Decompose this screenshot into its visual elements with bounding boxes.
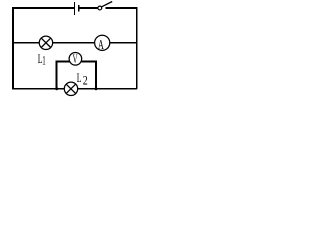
wire middle-left: [12, 42, 39, 44]
lamp L1: [39, 36, 52, 49]
svg-text:A: A: [98, 38, 105, 53]
wire bottom-left: [12, 88, 64, 90]
battery B1: [75, 2, 79, 15]
wire top-left to left edge down: [13, 8, 75, 89]
wire bottom-right: [78, 88, 137, 90]
wire switch to top-right corner down right edge: [106, 8, 137, 89]
switch S1: [98, 6, 102, 10]
node junction left of L2 parallel branch: [55, 87, 58, 90]
svg-text:V: V: [73, 53, 78, 67]
wire L1 to ammeter: [53, 42, 95, 44]
ammeter A: [95, 35, 110, 50]
wire voltmeter loop right branch: [81, 62, 96, 89]
svg-text:2: 2: [83, 74, 88, 87]
node junction right of L2 parallel branch: [95, 87, 98, 90]
wire voltmeter loop left branch: [57, 62, 70, 89]
lamp L2: [64, 82, 77, 95]
wire ammeter to right edge: [110, 42, 137, 44]
voltmeter V: [69, 53, 82, 66]
svg-text:L: L: [77, 72, 82, 85]
wire battery to switch: [79, 7, 98, 9]
svg-text:1: 1: [42, 55, 45, 69]
